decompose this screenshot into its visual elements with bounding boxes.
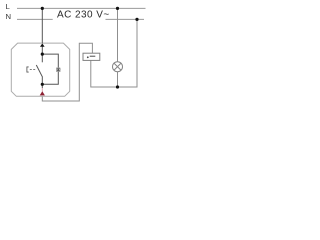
svg-text:L: L xyxy=(6,2,11,11)
svg-text:N: N xyxy=(6,12,12,21)
svg-text:AC 230 V~: AC 230 V~ xyxy=(57,10,110,21)
